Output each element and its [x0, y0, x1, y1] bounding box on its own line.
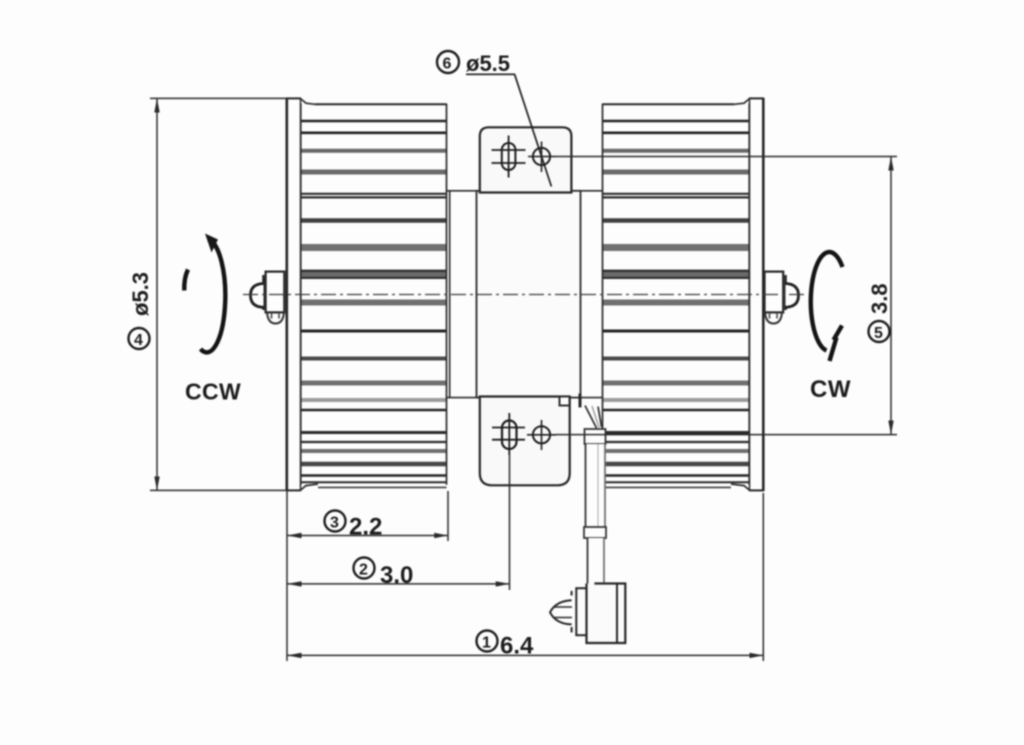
svg-text:5: 5: [874, 325, 883, 342]
motor lead wire middle segment: [586, 444, 606, 527]
motor flange left edge: [449, 191, 451, 397]
label circled 6 diameter 5.5: [437, 51, 515, 76]
bottom bracket wire clip notch: [560, 397, 570, 406]
left blower wheel outline: [301, 99, 447, 491]
right blower wheel fins: [603, 104, 750, 487]
svg-text:6.4: 6.4: [500, 633, 534, 660]
motor body: [477, 191, 581, 398]
label circled 2 offset 3.0: [354, 558, 414, 590]
right wheel end plate: [749, 98, 764, 491]
wire tape band 2: [584, 527, 606, 538]
svg-text:2: 2: [359, 562, 368, 579]
extension line from bottom hole to right: [556, 434, 897, 436]
wire connector body: [587, 584, 626, 644]
extension line right edge of left wheel down: [447, 491, 449, 541]
svg-text:3: 3: [330, 515, 339, 532]
bottom bracket round hole: [527, 420, 556, 450]
CCW rotation arrow: [184, 234, 225, 353]
label circled 4 diameter 5.3: [128, 272, 153, 349]
label circled 5 spacing 3.8: [867, 283, 892, 342]
extension line slot center down: [509, 455, 511, 590]
right blower wheel outline: [603, 99, 750, 491]
motor lead wire lower segment: [588, 538, 605, 584]
motor lead wire upper segment: [585, 406, 602, 429]
left blower wheel fins: [301, 104, 447, 487]
svg-text:CW: CW: [810, 376, 851, 403]
motor flange top edge: [447, 190, 603, 192]
dimension 2: mount offset 3.0: [287, 581, 509, 586]
svg-text:3.8: 3.8: [867, 283, 892, 314]
CW rotation arrow: [811, 252, 843, 361]
connector mounting tab: [576, 588, 586, 635]
svg-text:6: 6: [443, 56, 452, 73]
dimension 1: overall width 6.4: [287, 653, 763, 658]
extension line from top hole to right: [556, 156, 897, 158]
label circled 1 width 6.4: [477, 631, 535, 660]
svg-text:2.2: 2.2: [349, 514, 382, 541]
dimension 5: hole spacing 3.8 right dimension line: [888, 157, 893, 435]
svg-text:4: 4: [134, 332, 143, 349]
top bracket round hole (5.5): [528, 142, 556, 173]
svg-text:ø5.3: ø5.3: [128, 272, 153, 316]
dimension 4: wheel diameter 5.3 left dimension line: [150, 98, 287, 490]
right extension line below (right plate edge): [762, 493, 764, 661]
motor flange bottom edge: [447, 397, 603, 399]
svg-text:3.0: 3.0: [380, 562, 413, 589]
label 6 leader line: [515, 74, 552, 186]
left wheel end plate: [286, 98, 301, 491]
svg-text:ø5.5: ø5.5: [466, 51, 510, 76]
connector grommet prong: [550, 591, 572, 633]
wire exit post: [579, 394, 582, 408]
label circled 3 width 2.2: [325, 511, 383, 541]
dimension 3: wheel width 2.2: [287, 533, 448, 538]
wire tape band 1: [585, 429, 606, 444]
svg-text:CCW: CCW: [185, 379, 241, 405]
svg-text:1: 1: [482, 635, 491, 652]
right shaft with push-nut: [765, 272, 799, 324]
bottom mounting bracket: [480, 397, 570, 486]
centerline (shaft axis): [243, 294, 804, 296]
top bracket slot hole: [492, 136, 526, 178]
bottom bracket slot hole: [492, 413, 525, 455]
left shaft with push-nut: [251, 272, 285, 324]
top mounting bracket: [480, 127, 572, 192]
left extension line below (wheel edge): [286, 491, 288, 661]
